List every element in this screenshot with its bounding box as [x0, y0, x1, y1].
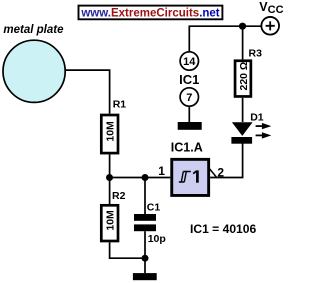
svg-text:metal plate: metal plate — [3, 24, 64, 36]
LED D1 — [231, 112, 271, 144]
svg-text:IC1.A: IC1.A — [171, 140, 203, 154]
wire gate output to LED — [210, 144, 243, 178]
pin 14 — [180, 52, 198, 70]
wire R2 to ground node — [110, 242, 145, 258]
banner www.ExtremeCircuits.net — [79, 6, 223, 20]
wire pin 7 to ground — [188, 106, 190, 122]
capacitor C1 — [134, 202, 166, 245]
wire C1 to ground node — [144, 231, 146, 258]
supply VCC symbol — [261, 17, 279, 35]
svg-text:10M: 10M — [104, 210, 116, 231]
junction ground node — [142, 255, 149, 262]
svg-text:www.ExtremeCircuits.net: www.ExtremeCircuits.net — [80, 8, 219, 20]
svg-text:D1: D1 — [250, 112, 264, 124]
svg-text:10p: 10p — [148, 233, 166, 245]
junction rail/R3 — [239, 23, 246, 30]
resistor R1 — [101, 98, 126, 153]
wire node to gate input — [110, 177, 171, 179]
svg-text:10M: 10M — [104, 121, 116, 142]
metal plate electrode — [3, 40, 65, 102]
supply rail wire — [189, 26, 261, 52]
svg-text:C1: C1 — [147, 202, 161, 214]
wire node to C1 — [144, 178, 146, 215]
wire to ground — [144, 258, 146, 273]
svg-text:R3: R3 — [249, 47, 263, 59]
svg-text:14: 14 — [183, 56, 196, 68]
resistor R3 — [235, 47, 262, 96]
svg-text:IC1: IC1 — [179, 72, 199, 87]
ground (IC1) — [178, 122, 202, 130]
resistor R2 — [101, 190, 125, 241]
svg-text:220 Ω: 220 Ω — [238, 62, 250, 91]
wire node to R2 — [109, 178, 111, 205]
schmitt inverter IC1.A — [158, 140, 224, 195]
wire R3 to rail — [242, 26, 244, 59]
svg-text:IC1 = 40106: IC1 = 40106 — [190, 222, 257, 236]
svg-text:R1: R1 — [113, 98, 127, 110]
wire LED to R3 — [242, 98, 244, 122]
pin 7 — [180, 88, 198, 106]
svg-text:R2: R2 — [112, 190, 126, 202]
node junction C1 tap — [142, 174, 149, 181]
svg-text:1: 1 — [158, 164, 165, 178]
wire plate to R1 — [65, 70, 110, 114]
wire R1 to node — [109, 155, 111, 178]
ground (bottom) — [133, 273, 157, 280]
node junction R1/R2/input — [106, 174, 113, 181]
svg-text:7: 7 — [186, 92, 192, 104]
